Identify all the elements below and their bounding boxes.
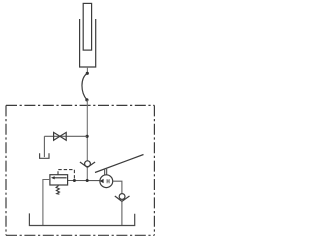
hand pump outlet triangle — [100, 179, 104, 184]
wire cylinder port stub — [86, 67, 88, 73]
shut-off (release) valve — [54, 132, 67, 140]
node release branch junction — [86, 135, 89, 138]
wire suction pipe to tank — [121, 201, 123, 225]
wire pump delivery node line — [68, 180, 100, 182]
flexible hose — [82, 73, 87, 100]
tank (main reservoir) — [29, 213, 134, 225]
relief valve flow arrow — [54, 177, 67, 179]
cylinder body walls — [80, 19, 96, 67]
wire release valve drain leg — [43, 136, 45, 157]
relief valve body — [50, 175, 68, 185]
relief valve pilot line (dashed) — [58, 170, 74, 180]
node pilot junction — [73, 179, 76, 182]
cylinder plunger (ram) — [83, 3, 91, 50]
enclosure right border (chain line) — [153, 105, 155, 235]
wire CV1 to node line — [86, 167, 88, 180]
hand pump piston mark — [107, 179, 109, 183]
check valve CV1 ball — [85, 161, 91, 167]
wire pump suction line — [113, 181, 122, 193]
node hose top junction — [86, 72, 89, 75]
relief valve spring — [56, 186, 59, 195]
node main line junction — [86, 179, 89, 182]
node hose bottom junction — [85, 98, 88, 101]
check valve CV2 seat — [115, 196, 130, 201]
hand pump body — [100, 175, 113, 188]
wire release branch horizontal — [44, 135, 87, 137]
enclosure top border (chain line) — [6, 104, 154, 106]
check valve CV2 ball — [119, 194, 125, 200]
hand pump pivot links — [105, 169, 107, 175]
tank (release drain reservoir) — [40, 153, 49, 158]
enclosure bottom border (chain line) — [6, 234, 154, 236]
check valve CV1 seat — [80, 162, 95, 167]
hand pump lever — [95, 155, 144, 173]
wire main pressure line — [86, 100, 88, 161]
enclosure left border (chain line) — [5, 105, 7, 235]
wire relief valve drain to tank — [43, 180, 50, 226]
